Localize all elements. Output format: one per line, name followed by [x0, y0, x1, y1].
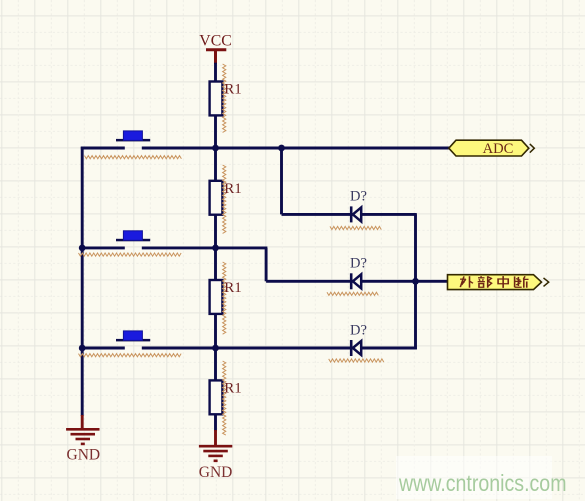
svg-text:R1: R1 [224, 181, 242, 197]
svg-text:VCC: VCC [199, 32, 231, 49]
svg-text:R1: R1 [224, 82, 242, 98]
svg-text:D?: D? [350, 189, 367, 205]
svg-text:www.cntronics.com: www.cntronics.com [398, 470, 566, 496]
svg-text:R1: R1 [224, 381, 242, 397]
svg-text:D?: D? [350, 256, 367, 272]
svg-text:GND: GND [199, 464, 233, 481]
svg-text:R1: R1 [224, 280, 242, 296]
svg-text:D?: D? [350, 323, 367, 339]
svg-text:GND: GND [67, 446, 101, 463]
svg-text:ADC: ADC [483, 141, 514, 157]
